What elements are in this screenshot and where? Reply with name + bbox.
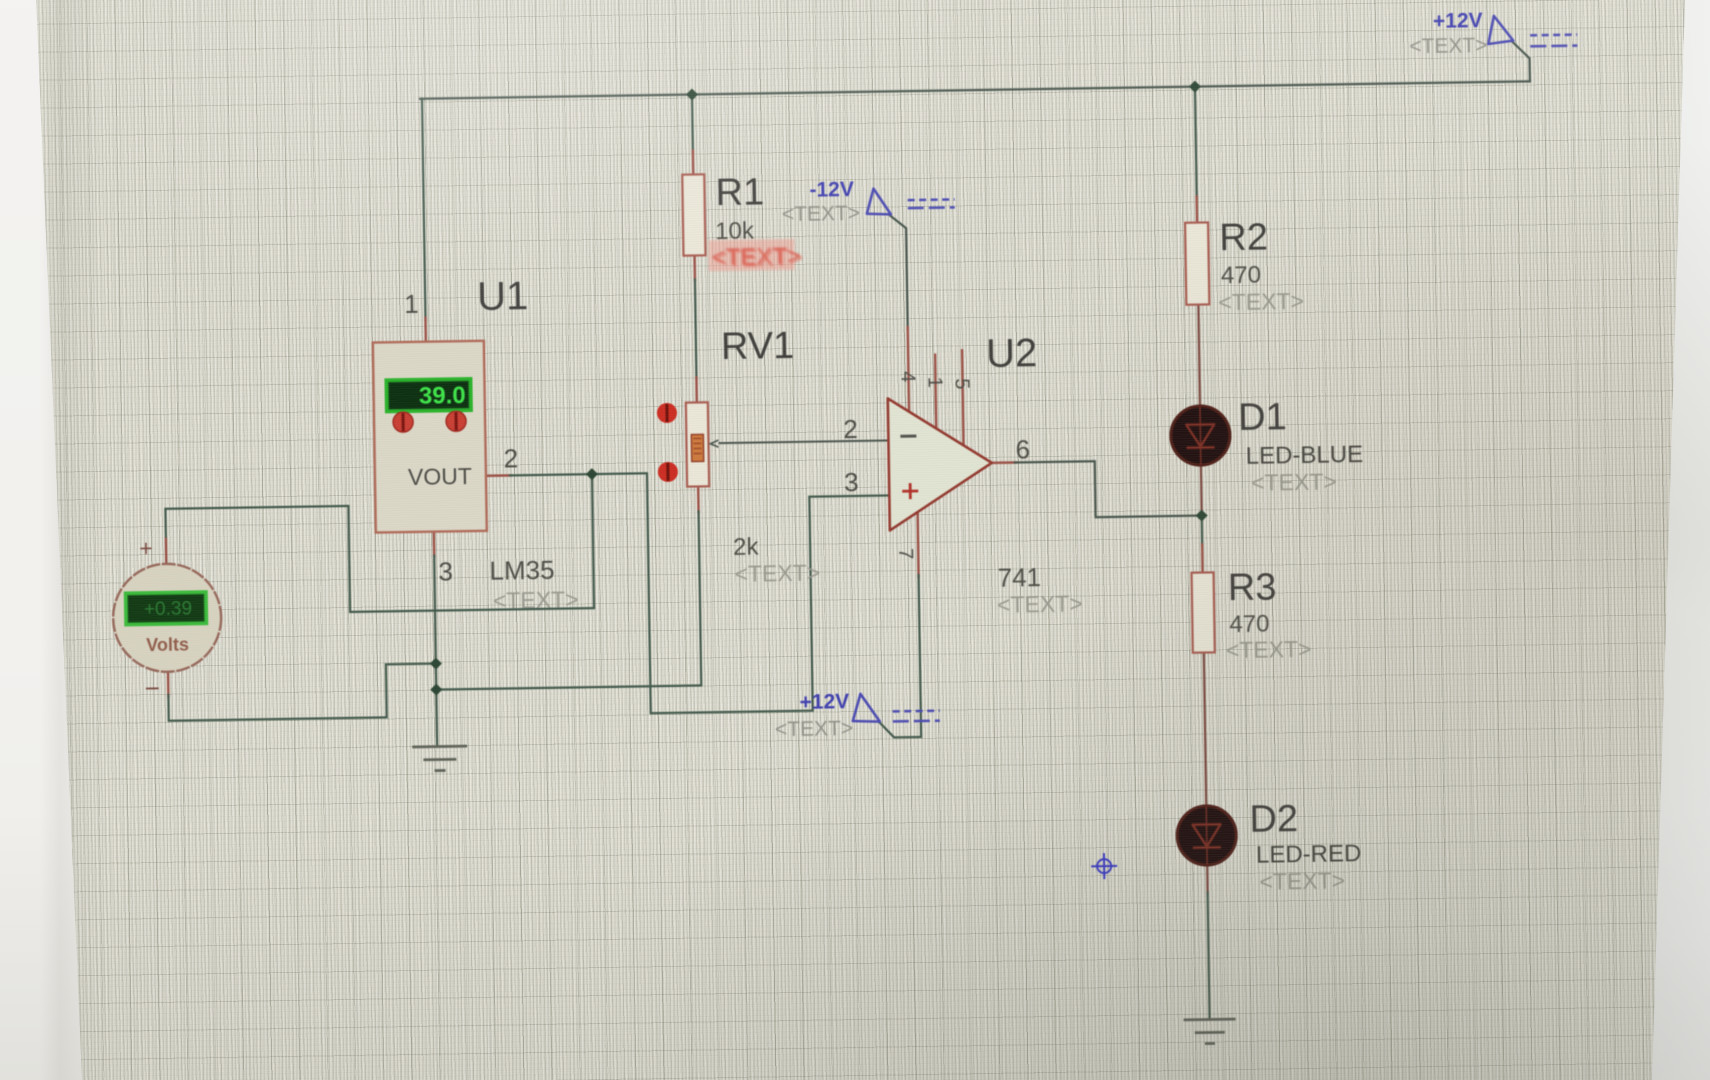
- wire +12V terminal lead: [1512, 41, 1530, 81]
- wire R1 to RV1: [695, 279, 697, 379]
- wire R2 top lead: [1195, 87, 1197, 199]
- pin R1 bottom stub: [693, 255, 696, 280]
- pin R1 top stub: [692, 150, 695, 174]
- wire top +12V bus: [420, 81, 1530, 98]
- wire U1 pin2 to op-amp pin3: [510, 469, 892, 715]
- pin R3 bottom stub and wire to D2: [1204, 653, 1206, 807]
- voltmeter body: [112, 563, 222, 673]
- LED D2: [1175, 804, 1238, 867]
- pin U1.2 stub: [486, 474, 511, 477]
- pin voltmeter plus stub: [165, 539, 168, 564]
- junction node voltmeter plus tap: [586, 468, 598, 480]
- resistor R2: [1185, 222, 1209, 304]
- U1 up adjust knob: [393, 412, 413, 432]
- pin U1.1 stub: [424, 318, 427, 342]
- LED D1: [1169, 404, 1232, 467]
- pin U2.4 stub: [908, 327, 909, 412]
- wire voltmeter minus to ground net: [168, 664, 437, 721]
- pin U2.5 stub: [962, 350, 964, 446]
- pin D1 cathode stub to node: [1200, 465, 1203, 516]
- pin U2.1 stub: [935, 355, 936, 430]
- power terminal +12V bottom: [774, 689, 940, 742]
- pin U1.3 stub: [433, 532, 436, 557]
- resistor R1: [682, 174, 705, 255]
- power terminal -12V: [781, 176, 955, 226]
- op-amp U2: [888, 397, 993, 531]
- power terminal +12V top right: [1409, 8, 1578, 59]
- wire RV1 wiper to op-amp pin2: [719, 440, 887, 443]
- wire -12V terminal lead: [890, 215, 908, 329]
- wire op-amp pin7 to +12V terminal: [877, 575, 922, 738]
- R1 TEXT placeholder highlighted: [708, 239, 803, 273]
- wire node to R3: [1201, 516, 1204, 547]
- wire U1 pin1 vertical: [422, 99, 425, 320]
- pin RV1 top stub: [695, 377, 698, 402]
- pin U2.7 stub: [918, 511, 919, 577]
- wire R1 top lead: [691, 95, 694, 153]
- wire RV1 bottom to ground net: [434, 511, 702, 689]
- junction node R1 top: [686, 88, 698, 100]
- pin R3 top stub: [1201, 545, 1204, 573]
- junction node R2 top: [1189, 81, 1201, 93]
- RV1 wiper arrow: [710, 440, 718, 447]
- origin crosshair marker: [1091, 853, 1117, 879]
- wire voltmeter plus branch: [165, 474, 594, 615]
- pin U2.6 output stub: [992, 461, 1017, 464]
- pin R2 bottom stub and wire to D1: [1198, 305, 1200, 407]
- pin RV1 bottom stub: [697, 486, 700, 512]
- pin D2 cathode stub: [1206, 865, 1209, 895]
- junction node ground net lower: [430, 684, 442, 696]
- wire op-amp output to LED node: [1015, 460, 1202, 519]
- RV1 up adjust arrow: [657, 403, 677, 423]
- pin R2 top stub: [1195, 197, 1198, 223]
- junction node ground net upper: [430, 658, 442, 670]
- U1 down adjust knob: [446, 411, 466, 431]
- potentiometer RV1 body: [686, 402, 709, 486]
- ground symbol under D2: [1184, 1019, 1236, 1044]
- pin voltmeter minus stub: [167, 671, 170, 697]
- junction node LED output: [1196, 509, 1208, 521]
- LM35 sensor U1 body: [373, 341, 487, 533]
- ground symbol under LM35: [412, 746, 467, 771]
- wire U1 pin3 to ground: [434, 556, 437, 747]
- resistor R3: [1192, 572, 1215, 652]
- wire D2 to ground: [1208, 893, 1210, 1020]
- RV1 down adjust arrow: [658, 462, 678, 482]
